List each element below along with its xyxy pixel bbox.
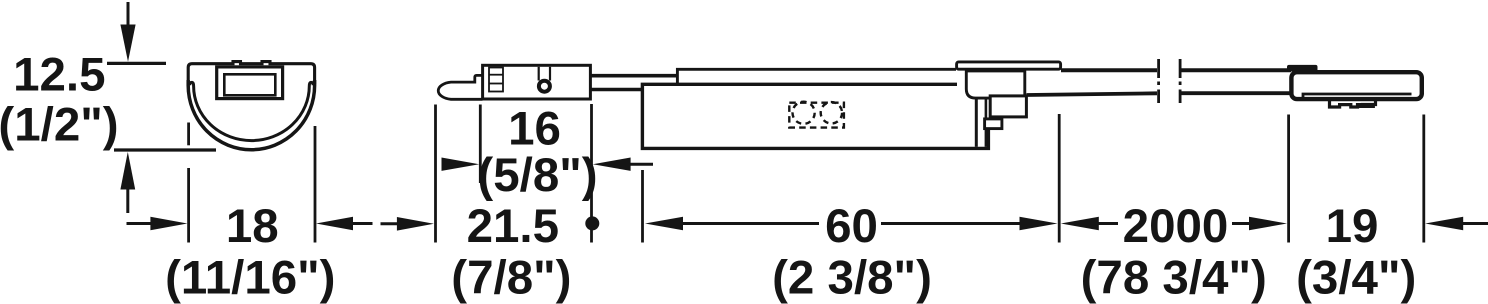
svg-text:(7/8"): (7/8"): [451, 252, 571, 304]
svg-text:2000: 2000: [1123, 200, 1229, 253]
svg-text:19: 19: [1326, 200, 1379, 253]
svg-text:16: 16: [508, 103, 561, 156]
svg-text:(5/8"): (5/8"): [477, 149, 597, 202]
svg-text:(2 3/8"): (2 3/8"): [772, 252, 932, 304]
svg-text:21.5: 21.5: [467, 200, 559, 253]
svg-text:(3/4"): (3/4"): [1296, 252, 1416, 304]
svg-text:60: 60: [825, 200, 878, 253]
svg-text:(1/2"): (1/2"): [0, 98, 119, 151]
svg-text:(78 3/4"): (78 3/4"): [1081, 252, 1267, 304]
svg-text:12.5: 12.5: [13, 49, 105, 102]
svg-text:(11/16"): (11/16"): [165, 252, 335, 304]
svg-text:18: 18: [226, 200, 279, 253]
